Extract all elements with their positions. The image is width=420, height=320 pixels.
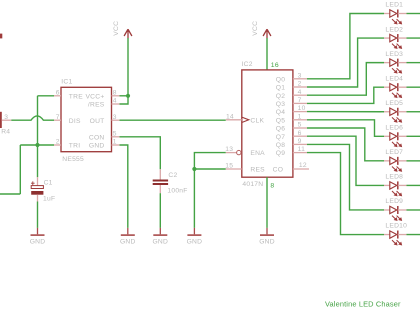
wire R4 pin stub [2, 119, 12, 121]
op IC1 NE555 body [61, 87, 112, 151]
pin Q1 stub [293, 86, 307, 88]
op IC2 4017N body [242, 70, 293, 177]
LED LED2 [384, 34, 407, 49]
svg-text:LED2: LED2 [385, 26, 403, 33]
svg-text:LED8: LED8 [385, 174, 403, 181]
LED LED8 [384, 181, 407, 196]
pin 7 stub [54, 119, 61, 121]
svg-text:8: 8 [270, 182, 274, 189]
svg-text:VCC+: VCC+ [85, 93, 104, 100]
svg-text:GND: GND [152, 238, 168, 245]
wire Q0 to LED1 [307, 14, 384, 79]
pin Q2 stub [293, 94, 307, 96]
svg-text:LED10: LED10 [385, 223, 407, 230]
wire LED7 cathode to edge [407, 160, 420, 162]
svg-text:Q8: Q8 [276, 142, 285, 149]
svg-text:16: 16 [271, 62, 279, 69]
pin 12 stub CO [293, 168, 309, 170]
wire LED6 cathode to edge [407, 135, 420, 137]
node VCC junction [126, 94, 130, 98]
wire LED1 cathode to edge [407, 13, 420, 15]
wire LED8 cathode to edge [407, 184, 420, 186]
wire VCC to pin4 [120, 96, 129, 104]
LED LED5 [384, 108, 407, 123]
pin 8 stub [112, 95, 120, 97]
pin Q5 stub [293, 119, 307, 121]
wire to left edge [0, 193, 20, 195]
svg-text:CO: CO [273, 167, 284, 174]
pin 1 stub [112, 144, 120, 146]
capacitor C1 polarity mark [31, 181, 35, 185]
pin 3 stub [112, 119, 120, 121]
svg-text:/RES: /RES [88, 102, 105, 109]
ground GND IC1 bar [121, 234, 135, 236]
pin 14 stub [226, 119, 242, 121]
pin Q6 stub [293, 127, 307, 129]
svg-text:Q4: Q4 [276, 109, 285, 116]
pin Q0 stub [293, 78, 307, 80]
LED LED6 [384, 132, 407, 147]
svg-text:R4: R4 [1, 129, 10, 136]
svg-text:TRE: TRE [69, 93, 83, 100]
power VCC symbol 1 [124, 29, 132, 38]
svg-text:GND: GND [120, 238, 136, 245]
ground GND IC2 bar [260, 234, 274, 236]
capacitor C1 bottom plate [31, 191, 43, 195]
svg-text:C2: C2 [168, 172, 177, 179]
svg-text:LED5: LED5 [385, 100, 403, 107]
pin 13 stub [226, 152, 237, 154]
capacitor C2 top stub [159, 169, 161, 179]
svg-text:LED9: LED9 [385, 198, 403, 205]
svg-text:Q6: Q6 [276, 126, 285, 133]
ground GND C2 stub [159, 228, 161, 234]
svg-text:VCC: VCC [252, 21, 259, 36]
svg-text:Q3: Q3 [276, 101, 285, 108]
wire Q5 to LED6 [307, 120, 384, 137]
svg-text:LED7: LED7 [385, 149, 403, 156]
wire LED10 cathode to edge [407, 234, 420, 236]
wire LED3 cathode to edge [407, 62, 420, 64]
svg-text:TRI: TRI [69, 143, 81, 150]
wire VCC to pin8 [120, 95, 129, 97]
wire Q4 to LED5 [307, 111, 384, 113]
wire R4 to DIS with hop over vertical [11, 116, 54, 120]
svg-text:LED3: LED3 [385, 51, 403, 58]
wire pin8 to GND [266, 177, 268, 228]
LED LED10 [384, 231, 407, 246]
svg-text:OUT: OUT [90, 118, 105, 125]
svg-text:GND: GND [259, 238, 275, 245]
capacitor C2 bottom stub [159, 185, 161, 193]
LED LED7 [384, 157, 407, 172]
wire TRE vertical [37, 96, 39, 145]
pin 2 stub [54, 144, 61, 146]
clock input triangle [242, 117, 249, 122]
node RES junction [192, 167, 196, 171]
svg-text:Q9: Q9 [276, 150, 285, 157]
capacitor C2 plate 2 [153, 183, 168, 185]
wire RES branch [194, 168, 225, 170]
resistor R4 [0, 112, 2, 128]
pin Q8 stub [293, 143, 307, 145]
wire junction to C1 [37, 145, 39, 177]
wire pin1 to GND [120, 145, 128, 228]
svg-text:DIS: DIS [69, 118, 81, 125]
capacitor C1 top stub [37, 177, 39, 185]
wire Q3 to LED4 [307, 87, 384, 103]
capacitor C1 bottom stub [37, 195, 39, 202]
svg-text:CLK: CLK [250, 118, 264, 125]
resistor R1 (off-canvas, body edge) [0, 34, 2, 39]
power VCC symbol 2 [263, 29, 271, 38]
wire Q2 to LED3 [307, 63, 384, 96]
pin Q7 stub [293, 135, 307, 137]
wire C1 to GND [37, 202, 39, 228]
svg-text:ENA: ENA [250, 150, 265, 157]
svg-text:Valentine LED Chaser: Valentine LED Chaser [325, 299, 401, 308]
ground GND IC2 stub [266, 228, 268, 234]
svg-text:GND: GND [30, 238, 46, 245]
wire VCC1 vertical [127, 38, 129, 96]
svg-text:Q2: Q2 [276, 93, 285, 100]
LED LED3 [384, 59, 407, 74]
svg-text:Q7: Q7 [276, 134, 285, 141]
wire Q1 to LED2 [307, 38, 384, 87]
pin 5 stub [112, 136, 120, 138]
pin 15 stub [226, 168, 242, 170]
wire ENA branch [194, 153, 225, 228]
svg-text:LED4: LED4 [385, 75, 403, 82]
wire CON to C2 [120, 137, 161, 169]
svg-text:GND: GND [89, 143, 105, 150]
svg-text:CON: CON [89, 134, 105, 141]
ground GND C2 bar [153, 234, 167, 236]
svg-text:4017N: 4017N [242, 181, 263, 188]
pin 6 stub [54, 95, 61, 97]
svg-text:C1: C1 [44, 179, 53, 186]
svg-text:100nF: 100nF [167, 188, 187, 195]
pin 4 stub [112, 103, 120, 105]
wire LED9 cathode to edge [407, 209, 420, 211]
LED LED1 [384, 10, 407, 25]
pin Q4 stub [293, 111, 307, 113]
LED LED4 [384, 83, 407, 98]
LED LED9 [384, 206, 407, 221]
svg-text:IC1: IC1 [61, 78, 72, 85]
svg-text:RES: RES [250, 167, 265, 174]
wire LED5 cathode to edge [407, 111, 420, 113]
capacitor C2 plate 1 [153, 180, 168, 182]
wire Q7 to LED8 [307, 136, 384, 185]
svg-text:12: 12 [299, 162, 307, 169]
svg-text:1uF: 1uF [43, 195, 55, 202]
svg-text:Q0: Q0 [276, 76, 285, 83]
svg-text:NE555: NE555 [62, 156, 84, 163]
node TRI junction [35, 143, 39, 147]
svg-text:13: 13 [225, 146, 233, 153]
svg-text:15: 15 [225, 162, 233, 169]
wire LED2 cathode to edge [407, 37, 420, 39]
capacitor C1 top plate [31, 186, 43, 189]
svg-text:LED1: LED1 [385, 2, 403, 9]
wire TRI horizontal [20, 144, 54, 146]
wire TRI left vertical [19, 145, 21, 194]
wire C2 to GND [159, 193, 161, 228]
svg-text:Q1: Q1 [276, 85, 285, 92]
wire Q6 to LED7 [307, 128, 384, 161]
svg-text:LED6: LED6 [385, 125, 403, 132]
ground GND C1 bar [31, 234, 45, 236]
svg-text:Q5: Q5 [276, 117, 285, 124]
wire OUT to CLK [120, 119, 226, 121]
svg-text:IC2: IC2 [242, 61, 253, 68]
wire TRE horizontal [38, 95, 55, 97]
ground GND IC1 stub [127, 228, 129, 234]
svg-text:GND: GND [187, 238, 203, 245]
wire LED4 cathode to edge [407, 86, 420, 88]
pin 13 inversion bubble [237, 150, 241, 154]
svg-text:VCC: VCC [113, 21, 120, 36]
pin Q3 stub [293, 102, 307, 104]
wire VCC2 to pin16 [266, 38, 268, 70]
ground GND ENA/RES bar [187, 234, 201, 236]
wire Q8 to LED9 [307, 144, 384, 210]
wire Q9 to LED10 [307, 153, 384, 235]
ground GND C1 stub [37, 228, 39, 234]
pin Q9 stub [293, 152, 307, 154]
ground GND ENA/RES stub [193, 228, 195, 234]
